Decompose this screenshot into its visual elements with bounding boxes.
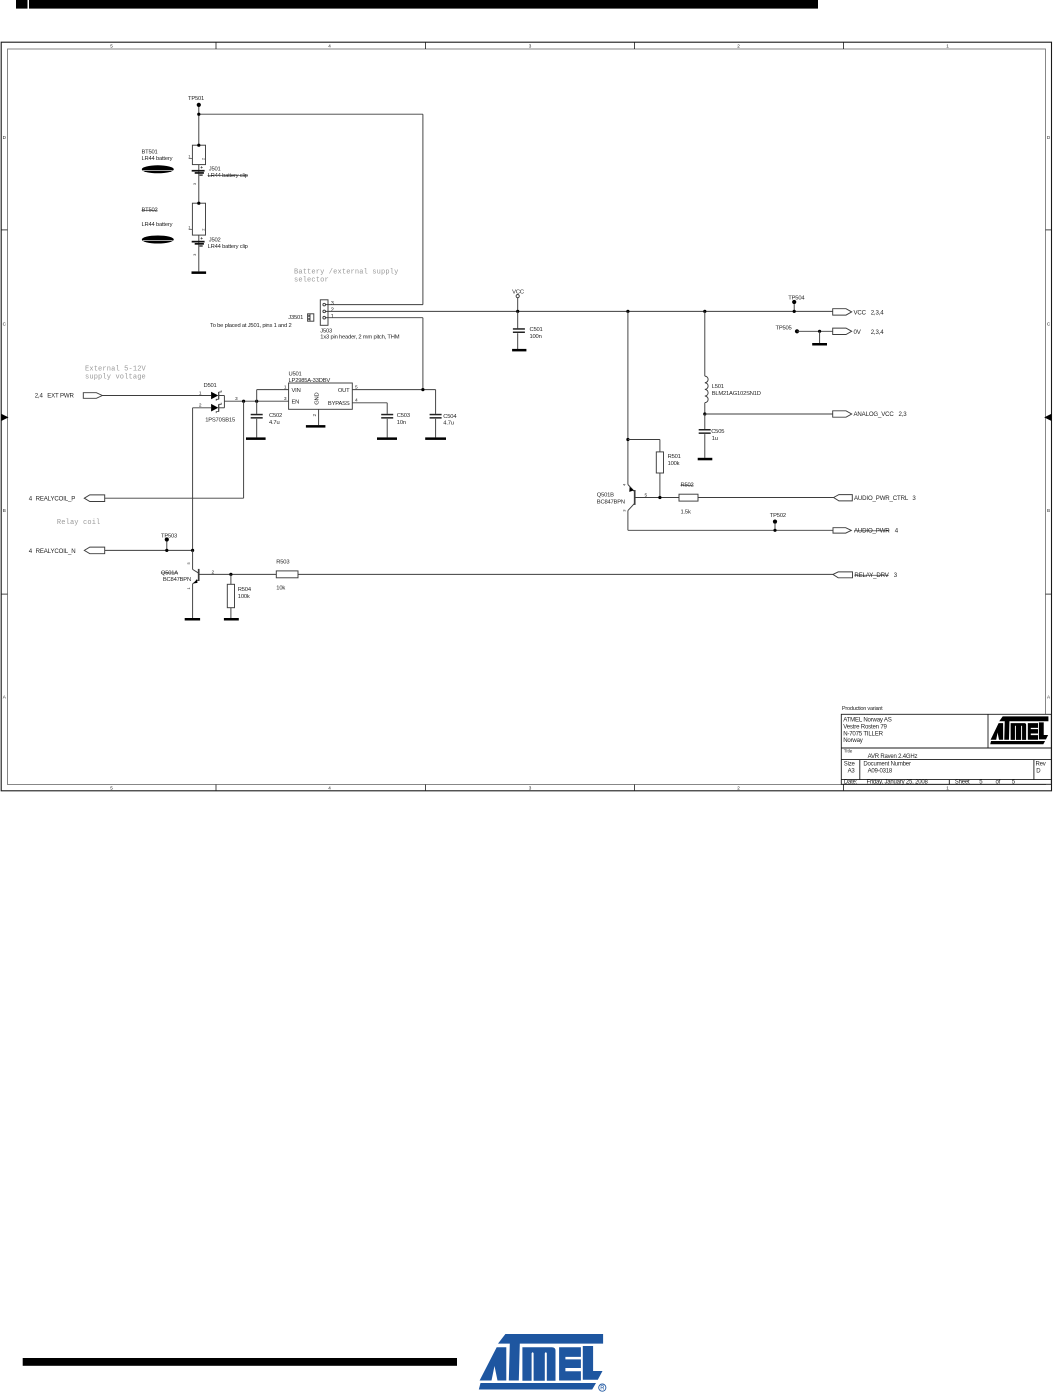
fold arrow right bbox=[1044, 414, 1051, 421]
flag AUDIO_PWR_CTRL bbox=[834, 495, 917, 502]
svg-text:LR44 battery clip: LR44 battery clip bbox=[208, 244, 248, 250]
node junction OUT header bbox=[421, 388, 424, 391]
svg-text:EXT PWR: EXT PWR bbox=[47, 393, 74, 400]
test point TP504 bbox=[788, 295, 805, 313]
svg-text:2: 2 bbox=[331, 308, 334, 314]
wire ANALOG_VCC bbox=[705, 413, 833, 415]
node junction TP502 bbox=[773, 529, 776, 532]
svg-text:3: 3 bbox=[894, 572, 898, 579]
frame column ticks top bbox=[216, 42, 844, 49]
wire VIN bbox=[257, 390, 289, 402]
wire BYPASS bbox=[352, 403, 387, 414]
svg-text:EN: EN bbox=[292, 399, 300, 405]
svg-text:5: 5 bbox=[645, 492, 648, 498]
svg-text:3: 3 bbox=[912, 495, 916, 502]
ground C504 bbox=[425, 437, 446, 440]
svg-text:2,4: 2,4 bbox=[35, 393, 44, 400]
ground C502 bbox=[246, 437, 266, 440]
title block company address bbox=[843, 717, 892, 745]
svg-text:1: 1 bbox=[284, 384, 287, 390]
svg-text:1: 1 bbox=[188, 224, 191, 229]
node junction at TP501 branch bbox=[197, 113, 200, 116]
svg-text:D: D bbox=[1047, 135, 1051, 140]
node junction L501 branch bbox=[703, 310, 706, 313]
transistor Q501B bbox=[628, 485, 679, 531]
svg-text:Production variant: Production variant bbox=[842, 706, 883, 712]
svg-text:3: 3 bbox=[529, 786, 532, 791]
resistor R504 bbox=[227, 574, 234, 618]
svg-text:1: 1 bbox=[186, 587, 191, 590]
svg-text:RELAY_DRV: RELAY_DRV bbox=[854, 572, 889, 579]
svg-text:100n: 100n bbox=[530, 334, 542, 340]
power symbol VCC bbox=[512, 290, 524, 312]
connector J3501 bbox=[308, 314, 314, 321]
svg-text:1.5k: 1.5k bbox=[681, 509, 691, 515]
svg-text:External 5-12V: External 5-12V bbox=[85, 366, 147, 374]
node junction VCC symbol bbox=[516, 310, 519, 313]
svg-text:2: 2 bbox=[312, 414, 318, 417]
svg-text:REALYCOIL_P: REALYCOIL_P bbox=[36, 496, 76, 503]
wire VCC down to Q501B bbox=[627, 311, 629, 484]
comment external supply voltage bbox=[85, 366, 147, 382]
svg-text:3: 3 bbox=[284, 396, 287, 402]
svg-text:4.7u: 4.7u bbox=[443, 420, 453, 426]
svg-text:Sheet: Sheet bbox=[955, 780, 970, 786]
svg-text:TP505: TP505 bbox=[776, 325, 792, 331]
LR44 battery icon 1 bbox=[142, 165, 174, 173]
resistor R503 bbox=[276, 571, 298, 578]
capacitor C505 bbox=[699, 414, 711, 458]
svg-text:U501: U501 bbox=[289, 372, 302, 378]
Atmel logo (title block, black) bbox=[990, 716, 1048, 744]
svg-text:BT502: BT502 bbox=[142, 208, 158, 214]
node junction R501 top bbox=[626, 438, 629, 441]
node junction 0V ground tap bbox=[818, 330, 821, 333]
wire right vertical down to header pin3 bbox=[422, 114, 424, 304]
svg-text:of: of bbox=[996, 780, 1001, 786]
svg-text:REALYCOIL_N: REALYCOIL_N bbox=[36, 548, 76, 555]
svg-text:VIN: VIN bbox=[292, 388, 301, 394]
svg-text:2: 2 bbox=[737, 786, 740, 791]
flag AUDIO_PWR bbox=[833, 528, 899, 535]
svg-text:BC847BPN: BC847BPN bbox=[163, 577, 191, 583]
LR44 battery icon 2 bbox=[142, 236, 174, 244]
svg-text:5: 5 bbox=[110, 786, 113, 791]
battery BT501 bbox=[189, 144, 206, 165]
node junction Q501A collector bbox=[191, 549, 194, 552]
svg-text:1PS70SB15: 1PS70SB15 bbox=[205, 417, 235, 423]
svg-text:4: 4 bbox=[895, 528, 899, 535]
svg-text:1: 1 bbox=[331, 314, 334, 320]
ground Q501A bbox=[185, 618, 200, 621]
svg-text:B: B bbox=[3, 508, 6, 513]
svg-text:Document Number: Document Number bbox=[863, 761, 911, 767]
ground R504 bbox=[224, 618, 239, 621]
svg-text:3: 3 bbox=[192, 182, 197, 185]
svg-text:R502: R502 bbox=[681, 483, 694, 489]
svg-text:R504: R504 bbox=[238, 587, 252, 593]
svg-text:4: 4 bbox=[621, 483, 626, 486]
capacitor C502 bbox=[251, 401, 263, 437]
svg-text:1x3 pin header, 2 mm pitch, TH: 1x3 pin header, 2 mm pitch, THM bbox=[320, 335, 399, 341]
test point TP501 bbox=[188, 96, 204, 114]
wire down to REALYCOIL_P bbox=[243, 401, 245, 498]
svg-text:1: 1 bbox=[199, 390, 202, 396]
pin header J503 pin numbers bbox=[331, 301, 334, 320]
sheet inner frame bbox=[8, 49, 1046, 785]
flag EXT PWR bbox=[35, 393, 103, 400]
flag ANALOG_VCC bbox=[833, 411, 908, 418]
svg-text:LR44 battery: LR44 battery bbox=[142, 222, 173, 228]
svg-text:Date:: Date: bbox=[844, 780, 858, 786]
svg-text:3: 3 bbox=[621, 509, 626, 512]
title block title row bbox=[844, 749, 918, 761]
svg-text:C504: C504 bbox=[443, 414, 457, 420]
frame column ticks bottom bbox=[216, 785, 844, 791]
svg-text:Rev: Rev bbox=[1036, 761, 1046, 767]
svg-text:4: 4 bbox=[29, 548, 33, 555]
ruler numbers bottom bbox=[110, 786, 949, 791]
svg-text:Size: Size bbox=[844, 761, 856, 767]
test point TP503 bbox=[161, 534, 177, 551]
svg-text:1: 1 bbox=[946, 43, 949, 48]
svg-text:D501: D501 bbox=[204, 383, 217, 389]
diode D501b bbox=[211, 403, 221, 413]
wire EXT PWR to D501 bbox=[102, 395, 211, 397]
svg-text:C: C bbox=[3, 322, 7, 327]
svg-text:C501: C501 bbox=[530, 327, 543, 333]
svg-text:Title: Title bbox=[844, 749, 853, 754]
ground U501 bbox=[306, 409, 326, 427]
regulator U501 bbox=[289, 383, 353, 409]
svg-text:Battery /external supply: Battery /external supply bbox=[294, 269, 398, 277]
flag VCC bbox=[833, 309, 885, 317]
node junction TP503 bbox=[165, 549, 168, 552]
node junction R504 top bbox=[229, 573, 232, 576]
svg-text:TP503: TP503 bbox=[161, 534, 177, 540]
svg-text:Friday, January 25, 2008: Friday, January 25, 2008 bbox=[867, 780, 929, 786]
capacitor C501 bbox=[513, 311, 525, 349]
ground 0V bbox=[812, 331, 827, 345]
svg-text:3: 3 bbox=[331, 301, 334, 307]
svg-text:TP501: TP501 bbox=[188, 96, 204, 102]
svg-text:3: 3 bbox=[529, 43, 532, 48]
svg-text:A: A bbox=[3, 695, 7, 700]
svg-text:VCC: VCC bbox=[854, 310, 867, 317]
wire R502 to flag bbox=[698, 497, 834, 499]
flag REALYCOIL_N bbox=[29, 547, 105, 555]
wire header pin3 bbox=[328, 304, 423, 306]
top header black bar bbox=[16, 0, 818, 9]
svg-text:C502: C502 bbox=[269, 413, 282, 419]
svg-text:10n: 10n bbox=[397, 420, 406, 426]
svg-text:1u: 1u bbox=[712, 436, 718, 442]
ground C501 bbox=[512, 349, 526, 352]
wire top horizontal TP501 to selector bbox=[199, 113, 423, 115]
flag RELAY_DRV bbox=[833, 572, 898, 579]
resistor R501 bbox=[656, 452, 663, 498]
wire D501b anode left bbox=[193, 407, 212, 409]
svg-text:J3501: J3501 bbox=[288, 315, 303, 321]
wire AUDIO_PWR bbox=[628, 529, 833, 531]
wire EN bbox=[224, 400, 288, 402]
svg-text:C503: C503 bbox=[397, 413, 410, 419]
Atmel logo (footer, blue) bbox=[479, 1334, 606, 1391]
svg-text:LP2985A-33DBV: LP2985A-33DBV bbox=[289, 378, 331, 384]
svg-text:5: 5 bbox=[110, 43, 113, 48]
frame row ticks right bbox=[1046, 230, 1052, 594]
sheet outer frame bbox=[1, 42, 1051, 791]
wire D501b anode down to coil net bbox=[192, 408, 194, 551]
svg-text:TP504: TP504 bbox=[788, 295, 805, 301]
wire battery chain vertical bbox=[198, 114, 200, 271]
svg-text:AUDIO_PWR: AUDIO_PWR bbox=[854, 528, 890, 535]
svg-text:2: 2 bbox=[737, 43, 740, 48]
svg-text:B: B bbox=[1047, 508, 1050, 513]
inductor L501 bbox=[705, 311, 708, 414]
battery clip J501 bbox=[192, 166, 205, 176]
node junction R501 Q501B branch bbox=[626, 310, 629, 313]
svg-text:TP502: TP502 bbox=[770, 513, 786, 519]
ground C505 bbox=[698, 458, 713, 461]
svg-text:4.7u: 4.7u bbox=[269, 420, 279, 426]
svg-text:1: 1 bbox=[188, 154, 191, 159]
battery BT502 bbox=[189, 202, 206, 236]
svg-text:4: 4 bbox=[328, 43, 331, 48]
svg-text:D: D bbox=[3, 135, 7, 140]
svg-text:100k: 100k bbox=[668, 461, 680, 467]
test point TP505 bbox=[776, 325, 800, 333]
svg-text:ANALOG_VCC: ANALOG_VCC bbox=[854, 411, 895, 418]
wire OUT bbox=[352, 389, 435, 391]
test point TP502 bbox=[770, 513, 786, 530]
svg-text:supply voltage: supply voltage bbox=[85, 374, 146, 382]
ground C503 bbox=[377, 437, 397, 440]
svg-text:L501: L501 bbox=[712, 384, 724, 390]
svg-text:AVR Raven 2.4GHz: AVR Raven 2.4GHz bbox=[868, 754, 918, 760]
svg-text:A: A bbox=[1047, 695, 1051, 700]
node junction R501 bottom bbox=[658, 496, 661, 499]
svg-text:0V: 0V bbox=[854, 329, 862, 336]
capacitor C504 bbox=[430, 390, 442, 438]
ruler letters left bbox=[3, 135, 7, 700]
svg-text:Norway: Norway bbox=[843, 737, 864, 744]
title block frame bbox=[841, 714, 1051, 784]
svg-text:selector: selector bbox=[294, 277, 329, 285]
svg-text:1: 1 bbox=[946, 786, 949, 791]
svg-text:2,3,4: 2,3,4 bbox=[871, 310, 885, 317]
svg-text:LR44 battery: LR44 battery bbox=[142, 156, 173, 162]
svg-text:BYPASS: BYPASS bbox=[328, 401, 350, 407]
svg-text:3: 3 bbox=[192, 253, 197, 256]
ruler numbers top bbox=[110, 43, 949, 48]
wire D501 cathodes join bbox=[219, 396, 225, 408]
fold arrow left bbox=[1, 414, 8, 421]
capacitor C503 bbox=[381, 414, 393, 438]
svg-text:OUT: OUT bbox=[338, 388, 350, 394]
battery clip J502 bbox=[192, 237, 205, 246]
svg-text:A3: A3 bbox=[848, 768, 856, 774]
svg-text:4: 4 bbox=[328, 786, 331, 791]
svg-text:C505: C505 bbox=[711, 429, 724, 435]
svg-text:BLM21AG102SN1D: BLM21AG102SN1D bbox=[712, 391, 761, 397]
svg-text:5: 5 bbox=[186, 562, 191, 565]
pin header J503 bbox=[320, 300, 328, 326]
node junction VIN tap bbox=[255, 400, 258, 403]
svg-text:Relay coil: Relay coil bbox=[57, 519, 101, 527]
wire R501 top bbox=[628, 440, 660, 452]
svg-text:BT501: BT501 bbox=[142, 150, 158, 156]
flag 0V bbox=[833, 328, 885, 336]
flag REALYCOIL_P bbox=[29, 495, 105, 503]
svg-text:J503: J503 bbox=[320, 328, 332, 334]
comment battery/external supply selector bbox=[294, 269, 398, 285]
wire R503 to flag bbox=[298, 573, 833, 575]
resistor R502 bbox=[679, 494, 698, 501]
svg-text:BC847BPN: BC847BPN bbox=[597, 499, 625, 505]
svg-text:A09-0318: A09-0318 bbox=[868, 768, 893, 774]
svg-text:4: 4 bbox=[29, 496, 33, 503]
node junction relaycoil P tap bbox=[242, 400, 245, 403]
diode D501a bbox=[211, 391, 221, 401]
svg-text:ATMEL Norway AS: ATMEL Norway AS bbox=[843, 717, 892, 724]
svg-text:2: 2 bbox=[212, 569, 215, 575]
title block date row bbox=[844, 780, 1016, 786]
wire header pin1 down to regulator out bbox=[422, 318, 424, 390]
svg-text:R503: R503 bbox=[276, 560, 289, 566]
title block size/document row bbox=[844, 761, 1046, 774]
node junction ANALOG_VCC bbox=[703, 412, 706, 415]
svg-text:C: C bbox=[1047, 322, 1051, 327]
svg-text:GND: GND bbox=[315, 393, 321, 405]
frame row ticks left bbox=[1, 230, 7, 594]
wire REALYCOIL_P bbox=[105, 497, 244, 499]
svg-text:Q501A: Q501A bbox=[161, 570, 178, 576]
svg-text:100k: 100k bbox=[238, 594, 250, 600]
transistor Q501A bbox=[193, 550, 277, 618]
ground battery chain bbox=[192, 271, 207, 274]
svg-text:R501: R501 bbox=[668, 454, 681, 460]
svg-text:AUDIO_PWR_CTRL: AUDIO_PWR_CTRL bbox=[854, 495, 909, 502]
svg-text:J501: J501 bbox=[209, 167, 221, 173]
svg-text:Q501B: Q501B bbox=[597, 492, 614, 498]
ruler letters right bbox=[1047, 135, 1051, 700]
svg-text:LR44 battery clip: LR44 battery clip bbox=[208, 173, 248, 179]
wire VCC rail bbox=[328, 310, 833, 312]
wire header pin1 bbox=[328, 317, 423, 319]
footer black bar bbox=[23, 1358, 457, 1366]
svg-text:2,3,4: 2,3,4 bbox=[871, 329, 885, 336]
wire REALYCOIL_N bbox=[105, 549, 193, 551]
svg-text:2,3: 2,3 bbox=[899, 411, 908, 418]
svg-text:10k: 10k bbox=[276, 586, 285, 592]
svg-text:J502: J502 bbox=[209, 238, 221, 244]
svg-text:To be placed at J501, pins 1 a: To be placed at J501, pins 1 and 2 bbox=[210, 323, 292, 329]
wire TP505 to 0V bbox=[797, 330, 833, 332]
